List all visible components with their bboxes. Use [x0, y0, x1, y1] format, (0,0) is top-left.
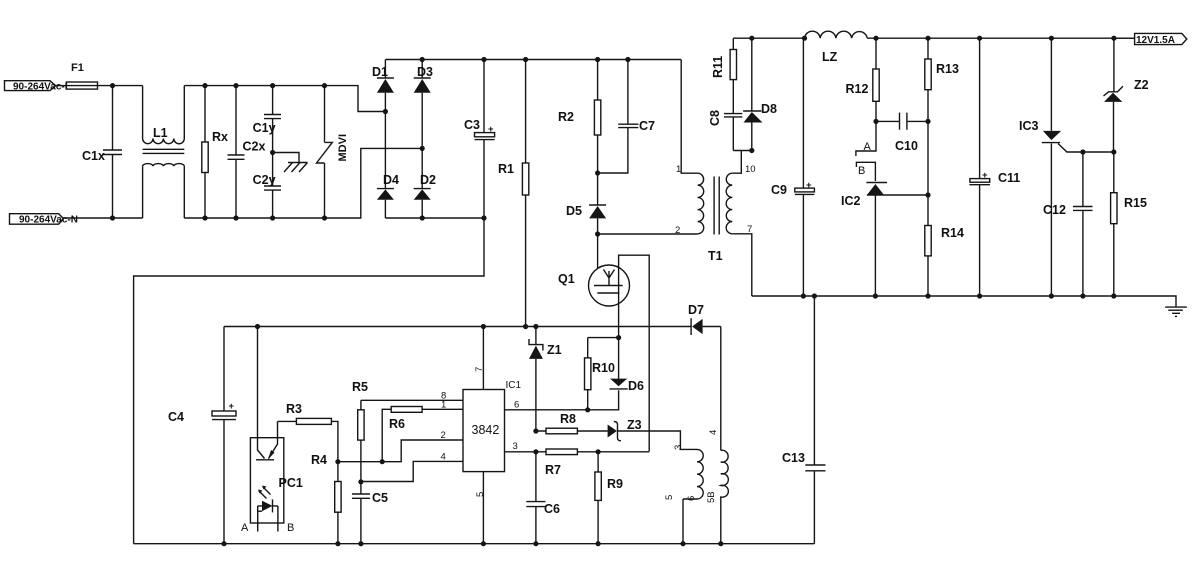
resistor R11 (secondary snubber): [711, 38, 737, 113]
svg-text:R15: R15: [1124, 196, 1147, 210]
varistor MDVI: [317, 86, 350, 218]
svg-text:1: 1: [676, 164, 681, 175]
junction dot: R9 tap: [596, 449, 601, 454]
svg-text:B: B: [858, 165, 865, 177]
wire: snubber bottom to pin 10 node: [733, 150, 752, 152]
svg-text:D4: D4: [383, 173, 399, 187]
shunt regulator IC2: [841, 183, 928, 296]
wire: rectified DC+ top bus: [385, 59, 681, 61]
ground (earth) symbol: [1165, 307, 1187, 316]
wire: top bus from L1 to bridge branch: [184, 86, 385, 112]
capacitor C12: [1043, 152, 1093, 296]
junction dot: C1x top: [110, 83, 115, 88]
svg-text:A: A: [241, 522, 249, 534]
diode D8 (output rectifier): [743, 38, 777, 150]
svg-text:+: +: [488, 124, 494, 135]
wire: secondary ground bus: [752, 296, 1176, 307]
wire: L input to fuse: [56, 85, 67, 87]
junction dot: divider tap: [925, 192, 930, 197]
inductor LZ: [805, 31, 868, 64]
junction dot: drain node: [595, 231, 600, 236]
svg-text:Z3: Z3: [627, 418, 642, 432]
resistor R5: [352, 380, 368, 482]
wire: R5 top to pin 8: [361, 399, 463, 401]
svg-text:D7: D7: [688, 303, 704, 317]
svg-text:F1: F1: [71, 62, 84, 74]
wire: primary VCC bus: [224, 326, 721, 328]
junction dot: node A divider: [873, 119, 878, 124]
svg-text:R7: R7: [545, 463, 561, 477]
resistor R1 (startup): [498, 60, 529, 327]
junction dot: bridge AC-L node: [383, 109, 388, 114]
svg-text:C6: C6: [544, 502, 560, 516]
wire: N input to L1 (bottom AC line): [63, 217, 142, 219]
resistor R7: [545, 449, 577, 477]
wire: bottom bus from L1 to bridge branch: [184, 148, 422, 218]
svg-text:IC1: IC1: [506, 380, 522, 391]
svg-text:C2y: C2y: [253, 173, 276, 187]
zener Z3: [608, 418, 697, 449]
wire: pin 7 to VCC bus: [482, 327, 484, 390]
junction dot: Z2/R15 node: [1111, 149, 1116, 154]
resistor R13: [925, 38, 959, 121]
chassis ground symbol: [284, 163, 308, 173]
junction dot: C10 right node: [925, 119, 930, 124]
capacitor C1y: [253, 86, 281, 153]
diode D6 (gate discharge): [588, 338, 644, 410]
svg-text:C5: C5: [372, 491, 388, 505]
junction dot: C1x bottom: [110, 215, 115, 220]
wire: DC- rail under bridge: [385, 217, 484, 219]
svg-text:D5: D5: [566, 204, 582, 218]
resistor R14: [925, 195, 964, 296]
svg-text:R5: R5: [352, 380, 368, 394]
junction dots on VCC bus: [255, 324, 260, 329]
resistor R9 (sense): [595, 452, 623, 544]
junction dot: R8 tap on Z1 column: [533, 428, 538, 433]
svg-text:A: A: [864, 141, 872, 153]
svg-text:4: 4: [708, 430, 719, 435]
svg-text:6: 6: [514, 400, 519, 411]
zener Z2: [1104, 38, 1149, 152]
svg-text:D6: D6: [628, 379, 644, 393]
diode D4: [377, 112, 399, 219]
svg-text:R2: R2: [558, 110, 574, 124]
resistor R2 (snubber): [558, 60, 601, 174]
svg-text:L1: L1: [153, 126, 168, 140]
svg-text:5: 5: [664, 495, 675, 500]
junction dot: R6 branch: [380, 459, 385, 464]
wire: gate node to R10: [588, 337, 619, 339]
wire: drain node to T1 primary pin 2: [598, 233, 698, 235]
svg-text:+: +: [982, 170, 988, 181]
svg-text:D3: D3: [417, 65, 433, 79]
svg-text:Q1: Q1: [558, 272, 575, 286]
svg-text:MDVI: MDVI: [337, 134, 349, 162]
capacitor C5: [352, 482, 388, 544]
svg-text:R8: R8: [560, 412, 576, 426]
diode D3: [414, 60, 433, 149]
svg-text:90-264Vac-N: 90-264Vac-N: [19, 215, 78, 226]
svg-text:7: 7: [747, 224, 752, 235]
svg-text:3: 3: [673, 445, 684, 450]
svg-text:C1y: C1y: [253, 121, 276, 135]
op-amp U1 : PWM controller IC1 3842: [441, 367, 522, 497]
svg-text:R10: R10: [592, 361, 615, 375]
wire: FB node to pin 2 riser: [338, 440, 463, 462]
svg-text:C3: C3: [464, 118, 480, 132]
junction dot: pin3 node at Z1 column: [533, 449, 538, 454]
svg-text:R4: R4: [311, 453, 327, 467]
resistor Rx: [202, 86, 228, 218]
svg-text:Rx: Rx: [212, 130, 228, 144]
wire: DC- down and across to primary ground rail: [134, 218, 484, 544]
svg-text:C8: C8: [708, 110, 722, 126]
junction dot: snubber bottom node: [595, 170, 600, 175]
svg-text:Z2: Z2: [1134, 78, 1149, 92]
svg-text:B: B: [287, 522, 294, 534]
wire: pin 3 current sense line: [505, 451, 650, 453]
MOSFET Q1: [558, 234, 630, 306]
svg-text:5: 5: [475, 492, 486, 497]
capacitor C10: [876, 113, 928, 153]
wire: Q1 source loop to current-sense node: [619, 255, 650, 451]
net label 12V1.5A (output flag): [1114, 33, 1187, 46]
svg-text:Z1: Z1: [547, 343, 562, 357]
transformer T1 primary winding (pins 1-2): [675, 60, 704, 237]
svg-text:D1: D1: [372, 65, 388, 79]
wire: primary ground bus: [134, 543, 815, 545]
wire: fuse to L1 (top AC line): [98, 85, 143, 87]
svg-text:C12: C12: [1043, 203, 1066, 217]
capacitor C7 (snubber): [598, 60, 655, 174]
svg-text:1: 1: [441, 400, 446, 411]
node B stub: [856, 162, 875, 181]
wire: secondary + top bus: [733, 37, 1134, 39]
svg-text:2: 2: [675, 225, 680, 236]
capacitor C9 (output electrolytic): [771, 38, 814, 296]
svg-text:IC2: IC2: [841, 194, 861, 208]
junction dots on filter buses: [202, 83, 207, 88]
junction dot: bridge AC-N node: [420, 146, 425, 151]
svg-text:2: 2: [441, 430, 446, 441]
capacitor C1x: [82, 86, 122, 218]
resistor R4: [311, 453, 341, 544]
svg-text:C4: C4: [168, 410, 184, 424]
svg-text:R14: R14: [941, 226, 964, 240]
capacitor C13 (Y cap primary-secondary): [782, 296, 826, 544]
fuse F1: [66, 62, 97, 89]
svg-text:C11: C11: [998, 171, 1020, 185]
svg-text:T1: T1: [708, 249, 723, 263]
svg-text:C13: C13: [782, 451, 805, 465]
node A stub: [856, 121, 876, 156]
diode D5 (clamp): [566, 173, 606, 234]
resistor R3: [278, 402, 338, 462]
resistor R15: [1111, 152, 1147, 296]
diode D1: [372, 60, 394, 112]
junction dot: FB node (R3/R4/pin2): [335, 459, 340, 464]
capacitor C2y: [253, 153, 281, 219]
capacitor C8: [708, 110, 742, 151]
svg-text:R12: R12: [846, 82, 869, 96]
diode D7 (VCC rectifier from aux winding): [688, 303, 704, 335]
svg-text:R3: R3: [286, 402, 302, 416]
diode D2: [414, 148, 436, 218]
svg-text:R9: R9: [607, 477, 623, 491]
junction dot: R5/C5/pin4 node: [358, 479, 363, 484]
svg-text:IC3: IC3: [1019, 119, 1039, 133]
zener Z1 (VCC clamp): [529, 327, 562, 432]
svg-text:90-264Vac-L: 90-264Vac-L: [13, 81, 71, 92]
svg-text:12V1.5A: 12V1.5A: [1136, 35, 1175, 46]
wire: R13 column down to divider node: [927, 121, 929, 195]
transformer T1 aux winding 4-5: [706, 430, 728, 544]
capacitor C3 (bulk electrolytic): [464, 60, 495, 219]
svg-text:R6: R6: [389, 417, 405, 431]
svg-text:PC1: PC1: [279, 476, 303, 490]
svg-text:10: 10: [745, 164, 756, 175]
junction dots on DC+ bus: [420, 57, 425, 62]
capacitor C2x: [228, 86, 266, 218]
net label 90-264Vac-L (AC line input flag): [5, 81, 71, 93]
svg-text:5B: 5B: [706, 491, 717, 503]
wire: D7 to aux winding pin 4: [720, 327, 722, 451]
svg-text:C7: C7: [639, 119, 655, 133]
svg-text:C1x: C1x: [82, 149, 105, 163]
inductor L1 (common-mode choke): [143, 86, 185, 218]
regulator IC3: [1019, 38, 1114, 295]
svg-text:3: 3: [513, 441, 518, 452]
wire: pin 6 gate drive line: [505, 409, 588, 411]
transformer T1 secondary winding (pins 10-7): [726, 151, 755, 297]
capacitor C4 (VCC electrolytic): [168, 327, 236, 544]
svg-text:C2x: C2x: [243, 140, 266, 154]
svg-text:C10: C10: [895, 139, 918, 153]
wire: pin 4 to R5/C5 node: [361, 461, 463, 481]
svg-text:R1: R1: [498, 162, 514, 176]
optocoupler PC1: [241, 327, 303, 535]
junction dots on secondary top bus: [749, 36, 754, 41]
capacitor C6: [526, 452, 560, 544]
svg-text:C9: C9: [771, 183, 787, 197]
resistor R6: [382, 407, 463, 462]
resistor R10 (gate): [585, 338, 615, 410]
wire: Y-cap midpoint to chassis ground: [273, 153, 299, 163]
junction dot: gate network top: [616, 335, 621, 340]
svg-text:D2: D2: [420, 173, 436, 187]
resistor R12: [846, 38, 880, 121]
svg-text:R13: R13: [936, 62, 959, 76]
resistor R8: [536, 412, 608, 434]
svg-text:LZ: LZ: [822, 50, 838, 64]
svg-text:3842: 3842: [472, 423, 500, 437]
svg-text:4: 4: [441, 452, 446, 463]
junction dot: C12 node: [1080, 149, 1085, 154]
svg-text:D8: D8: [761, 102, 777, 116]
wire: pin 5 to ground bus: [482, 472, 484, 544]
junction dots on primary ground bus: [221, 541, 226, 546]
svg-text:+: +: [806, 180, 812, 191]
svg-text:6: 6: [686, 496, 697, 501]
junction dots on secondary ground bus: [801, 293, 806, 298]
net label 90-264Vac-N (AC neutral input flag): [10, 214, 78, 226]
transformer T1 core: [714, 177, 719, 235]
transformer T1 aux winding 3-5: [664, 445, 703, 544]
svg-text:+: +: [229, 401, 235, 412]
svg-text:R11: R11: [711, 56, 725, 78]
junction dot: C1y/C2y midpoint: [270, 150, 275, 155]
capacitor C11 (output electrolytic): [969, 38, 1020, 295]
